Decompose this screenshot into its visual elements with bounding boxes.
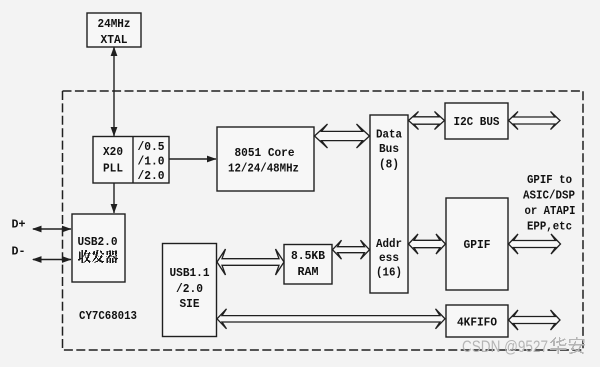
svg-text:Data: Data <box>376 129 402 142</box>
block GPIF <box>446 198 508 290</box>
svg-text:ASIC/DSP: ASIC/DSP <box>523 190 575 203</box>
bus RAM to Address bus (bidirectional) <box>333 240 370 259</box>
svg-text:Bus: Bus <box>379 143 399 156</box>
svg-text:EPP,etc: EPP,etc <box>527 221 572 234</box>
svg-text:RAM: RAM <box>298 266 319 279</box>
block X20 PLL with dividers <box>93 137 169 184</box>
block USB1.1/2.0 SIE <box>163 244 217 337</box>
wire D+ (bidirectional) <box>33 228 71 230</box>
wire D- (bidirectional) <box>33 259 71 261</box>
wire XTAL to PLL (bidirectional) <box>113 48 115 137</box>
chip outline CY7C68013 (dashed) <box>63 91 584 350</box>
bus I2C BUS to external (bidirectional) <box>509 112 561 130</box>
svg-text:4KFIFO: 4KFIFO <box>457 317 497 330</box>
svg-text:GPIF: GPIF <box>464 239 491 252</box>
bus Address bus to GPIF (bidirectional) <box>409 234 446 254</box>
bus Data Bus to I2C BUS (bidirectional) <box>409 112 445 130</box>
block 8051 Core <box>217 127 314 191</box>
oscillator 24MHz XTAL <box>87 13 141 47</box>
svg-text:or ATAPI: or ATAPI <box>525 205 576 218</box>
svg-text:/2.0: /2.0 <box>176 283 203 296</box>
block I2C BUS <box>445 103 508 139</box>
bus SIE to RAM (bidirectional) <box>217 249 284 275</box>
block 8.5KB RAM <box>284 245 332 285</box>
svg-text:/1.0: /1.0 <box>138 156 165 169</box>
svg-text:8.5KB: 8.5KB <box>291 250 325 263</box>
svg-text:Addr: Addr <box>376 238 402 251</box>
bus 8051 to Data Bus (bidirectional) <box>315 124 370 148</box>
svg-text:SIE: SIE <box>180 298 200 311</box>
block 4KFIFO <box>446 305 508 337</box>
bus GPIF to external (bidirectional) <box>509 234 561 254</box>
bus SIE to 4KFIFO (bidirectional) <box>217 309 445 329</box>
svg-text:PLL: PLL <box>103 163 123 176</box>
svg-text:USB1.1: USB1.1 <box>170 267 210 280</box>
svg-text:CY7C68013: CY7C68013 <box>79 310 137 323</box>
svg-text:I2C BUS: I2C BUS <box>454 116 500 129</box>
block USB2.0 transceiver <box>72 214 125 282</box>
label 收发器 (transceiver) <box>81 250 82 251</box>
svg-text:CSDN @9527: CSDN @9527 <box>462 338 548 356</box>
wire PLL to USB2.0 transceiver <box>113 183 115 213</box>
svg-text:D+: D+ <box>12 219 26 232</box>
svg-text:/0.5: /0.5 <box>138 141 165 154</box>
block Data Bus (8) / Address (16) <box>370 115 408 293</box>
svg-text:12/24/48MHz: 12/24/48MHz <box>228 163 299 176</box>
svg-text:8051 Core: 8051 Core <box>235 147 295 160</box>
bus 4KFIFO to external (bidirectional) <box>509 310 561 330</box>
svg-text:/2.0: /2.0 <box>138 170 165 183</box>
svg-text:USB2.0: USB2.0 <box>78 236 118 249</box>
svg-text:GPIF to: GPIF to <box>527 174 572 187</box>
svg-text:24MHz: 24MHz <box>98 18 131 31</box>
svg-text:(16): (16) <box>376 267 402 280</box>
svg-text:XTAL: XTAL <box>101 34 128 47</box>
svg-text:X20: X20 <box>103 146 123 159</box>
svg-text:ess: ess <box>379 252 399 265</box>
wire PLL to 8051 Core <box>170 158 217 160</box>
svg-text:(8): (8) <box>379 159 399 172</box>
svg-text:D-: D- <box>12 246 26 259</box>
watermark 华安 <box>555 337 556 338</box>
